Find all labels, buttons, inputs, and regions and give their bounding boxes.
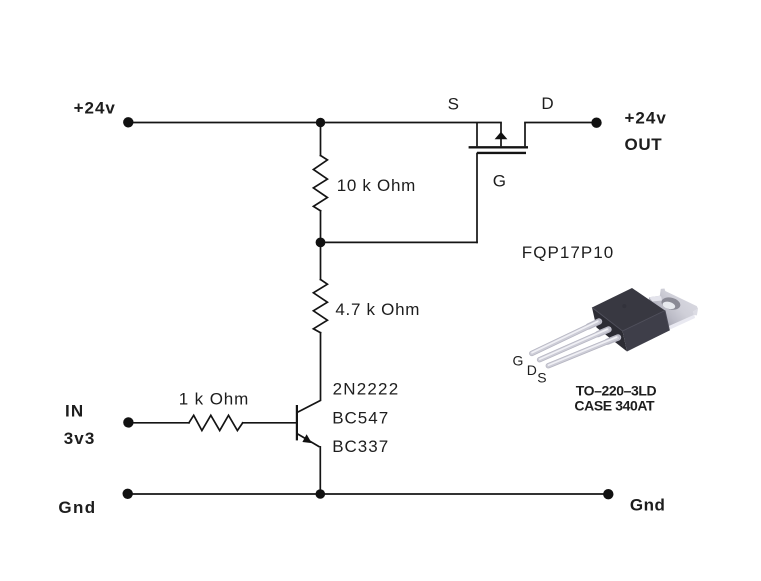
wire IN to resistor xyxy=(128,422,189,424)
package body top face xyxy=(592,288,665,331)
wire collector vertical xyxy=(320,333,322,401)
package body edge bevels xyxy=(592,308,665,332)
node gnd right terminal xyxy=(603,489,613,499)
svg-text:+24v: +24v xyxy=(625,108,667,127)
wire top rail right xyxy=(525,122,597,124)
svg-text:Gnd: Gnd xyxy=(630,495,666,514)
mosfet channel bar xyxy=(469,146,528,148)
wire top rail left xyxy=(128,122,501,124)
wire 4.7k top lead xyxy=(320,242,322,279)
package tab right step side xyxy=(693,309,698,316)
svg-text:3v3: 3v3 xyxy=(64,429,96,448)
node +24v out terminal xyxy=(591,118,601,128)
package body right face xyxy=(623,311,670,352)
package lead S xyxy=(548,337,618,366)
node top rail junction xyxy=(316,118,325,127)
svg-text:+24v: +24v xyxy=(74,99,116,118)
package tab hole xyxy=(660,296,681,312)
svg-text:S: S xyxy=(448,94,459,113)
transistor collector diagonal xyxy=(298,400,321,412)
mosfet drain vertical xyxy=(524,123,526,147)
svg-text:4.7 k Ohm: 4.7 k Ohm xyxy=(335,300,420,319)
mosfet source vertical xyxy=(476,123,478,147)
resistor R3 1 k Ohm xyxy=(189,415,243,430)
svg-text:S: S xyxy=(537,370,546,386)
TO-220 package illustration xyxy=(532,288,698,366)
mosfet gate bar xyxy=(477,152,526,154)
package lead G xyxy=(532,321,599,353)
svg-text:CASE 340AT: CASE 340AT xyxy=(574,397,655,413)
wire emitter vertical xyxy=(319,447,321,494)
package tab face xyxy=(648,289,698,332)
svg-text:2N2222: 2N2222 xyxy=(333,379,400,398)
svg-text:FQP17P10: FQP17P10 xyxy=(522,243,615,262)
svg-text:Gnd: Gnd xyxy=(58,498,96,517)
package tab bottom bright strip xyxy=(669,315,695,330)
wire gate horizontal xyxy=(321,241,478,243)
svg-text:10 k Ohm: 10 k Ohm xyxy=(337,176,416,195)
node +24v input terminal xyxy=(123,117,133,127)
node gate junction xyxy=(316,238,326,248)
resistor R1 10 k Ohm xyxy=(313,156,327,211)
svg-text:BC337: BC337 xyxy=(332,437,389,456)
svg-text:IN: IN xyxy=(65,401,84,420)
svg-text:BC547: BC547 xyxy=(332,408,389,427)
package body left face xyxy=(592,308,627,352)
package tab hole highlight xyxy=(662,300,676,310)
package lead D xyxy=(540,329,609,359)
package tab left shelf highlight xyxy=(649,296,662,302)
mosfet arrow stem xyxy=(500,123,502,147)
node gnd junction xyxy=(316,489,326,499)
wire ground rail xyxy=(128,493,609,495)
wire resistor to base xyxy=(243,422,297,424)
mosfet arrow head xyxy=(495,132,508,140)
wire 10k bottom lead xyxy=(320,211,322,243)
transistor emitter diagonal xyxy=(298,434,320,447)
package body mold mark xyxy=(622,304,626,308)
transistor emitter arrow xyxy=(302,434,311,443)
svg-text:G: G xyxy=(493,172,506,191)
transistor base bar xyxy=(296,405,298,440)
svg-text:OUT: OUT xyxy=(625,135,663,154)
svg-text:1 k Ohm: 1 k Ohm xyxy=(179,390,250,409)
svg-text:G: G xyxy=(513,353,524,369)
svg-text:D: D xyxy=(527,362,537,378)
resistor R2 4.7 k Ohm xyxy=(313,280,327,333)
svg-text:TO–220–3LD: TO–220–3LD xyxy=(576,382,657,398)
wire 10k top lead xyxy=(320,123,322,156)
node gnd left terminal xyxy=(123,489,133,499)
svg-text:D: D xyxy=(541,94,553,113)
node IN terminal xyxy=(123,417,133,427)
transistor Q1 NPN xyxy=(297,400,321,447)
wire gate vertical xyxy=(476,154,478,243)
MOSFET Q2 FQP17P10 P-channel xyxy=(469,123,528,153)
